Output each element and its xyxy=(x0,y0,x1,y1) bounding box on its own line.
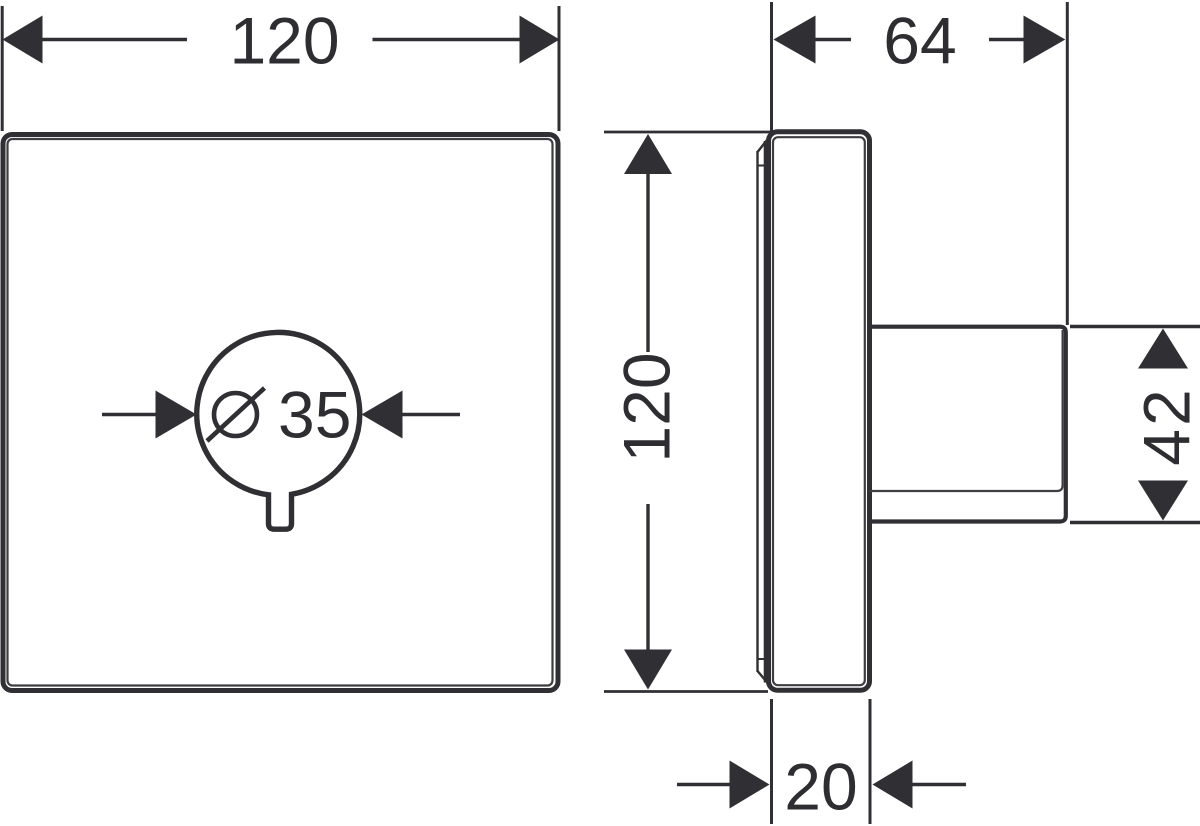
side view: face bottom chamfer xyxy=(758,671,769,684)
dim 120 side: lower line segment xyxy=(646,504,649,651)
svg-text:42: 42 xyxy=(1130,386,1200,465)
side view: face top tick xyxy=(757,165,767,167)
dim Ø35: left tail line xyxy=(102,413,156,416)
dim 120 top: left tail line xyxy=(42,38,187,41)
svg-text:120: 120 xyxy=(610,352,684,462)
dim 42: bottom extension line xyxy=(1070,521,1200,524)
dim Ø35: right arrow xyxy=(362,391,403,439)
dim 20: left arrow xyxy=(730,761,770,809)
front view: inner plate contour xyxy=(8,139,553,686)
dim 20: left extension line xyxy=(770,699,773,824)
svg-text:64: 64 xyxy=(883,4,956,78)
dim 42: up arrow xyxy=(1138,329,1188,369)
dim Ø35: left arrow xyxy=(156,391,197,439)
dim 20: right extension line xyxy=(869,699,872,824)
side view: cartridge box outline xyxy=(869,327,1066,522)
svg-text:20: 20 xyxy=(784,750,857,824)
side view: face bottom tick xyxy=(757,658,767,660)
dim 64: left tail line xyxy=(815,38,851,41)
dim 64: left extension line xyxy=(770,2,773,131)
dim 20: right tail line xyxy=(912,783,966,786)
dim Ø35: label diameter symbol xyxy=(214,393,257,436)
side view: plate body outer outline xyxy=(769,132,870,691)
dim 64: left arrow xyxy=(774,16,816,64)
dim 120 top: right tail line xyxy=(373,38,521,41)
side view: plate body inner contour xyxy=(773,137,865,685)
svg-text:35: 35 xyxy=(278,378,351,452)
dim 120 top: left extension line xyxy=(1,6,4,131)
dim 20: right arrow xyxy=(873,761,913,809)
dim Ø35: right tail line xyxy=(402,413,460,416)
side view: face top chamfer xyxy=(758,140,768,152)
dim 20: left tail line xyxy=(677,783,731,786)
dim 120 top: left arrow xyxy=(3,16,43,64)
side view: plate front face line xyxy=(756,151,758,672)
dim 120 side: down arrow xyxy=(624,650,672,690)
side view: cartridge inner contour xyxy=(869,330,1063,491)
dim 42: top extension line xyxy=(1070,325,1200,328)
dim 64: right extension line xyxy=(1066,2,1069,325)
dim 64: right arrow xyxy=(1024,16,1066,64)
front view: handle circle with bottom notch xyxy=(197,332,360,529)
dim 120 top: right extension line xyxy=(558,6,561,131)
dim 120 side: bottom extension line xyxy=(604,690,768,693)
side view: plate face rear edge xyxy=(764,141,767,683)
dim 120 top: right arrow xyxy=(520,16,560,64)
dim 120 side: upper line segment xyxy=(646,173,649,352)
front view: outer plate outline xyxy=(3,135,558,691)
dim 42: down arrow xyxy=(1138,481,1188,521)
dim 120 side: up arrow xyxy=(624,134,672,174)
dim 64: right tail line xyxy=(989,38,1024,41)
dim 120 side: top extension line xyxy=(604,131,776,134)
svg-text:120: 120 xyxy=(229,4,339,78)
